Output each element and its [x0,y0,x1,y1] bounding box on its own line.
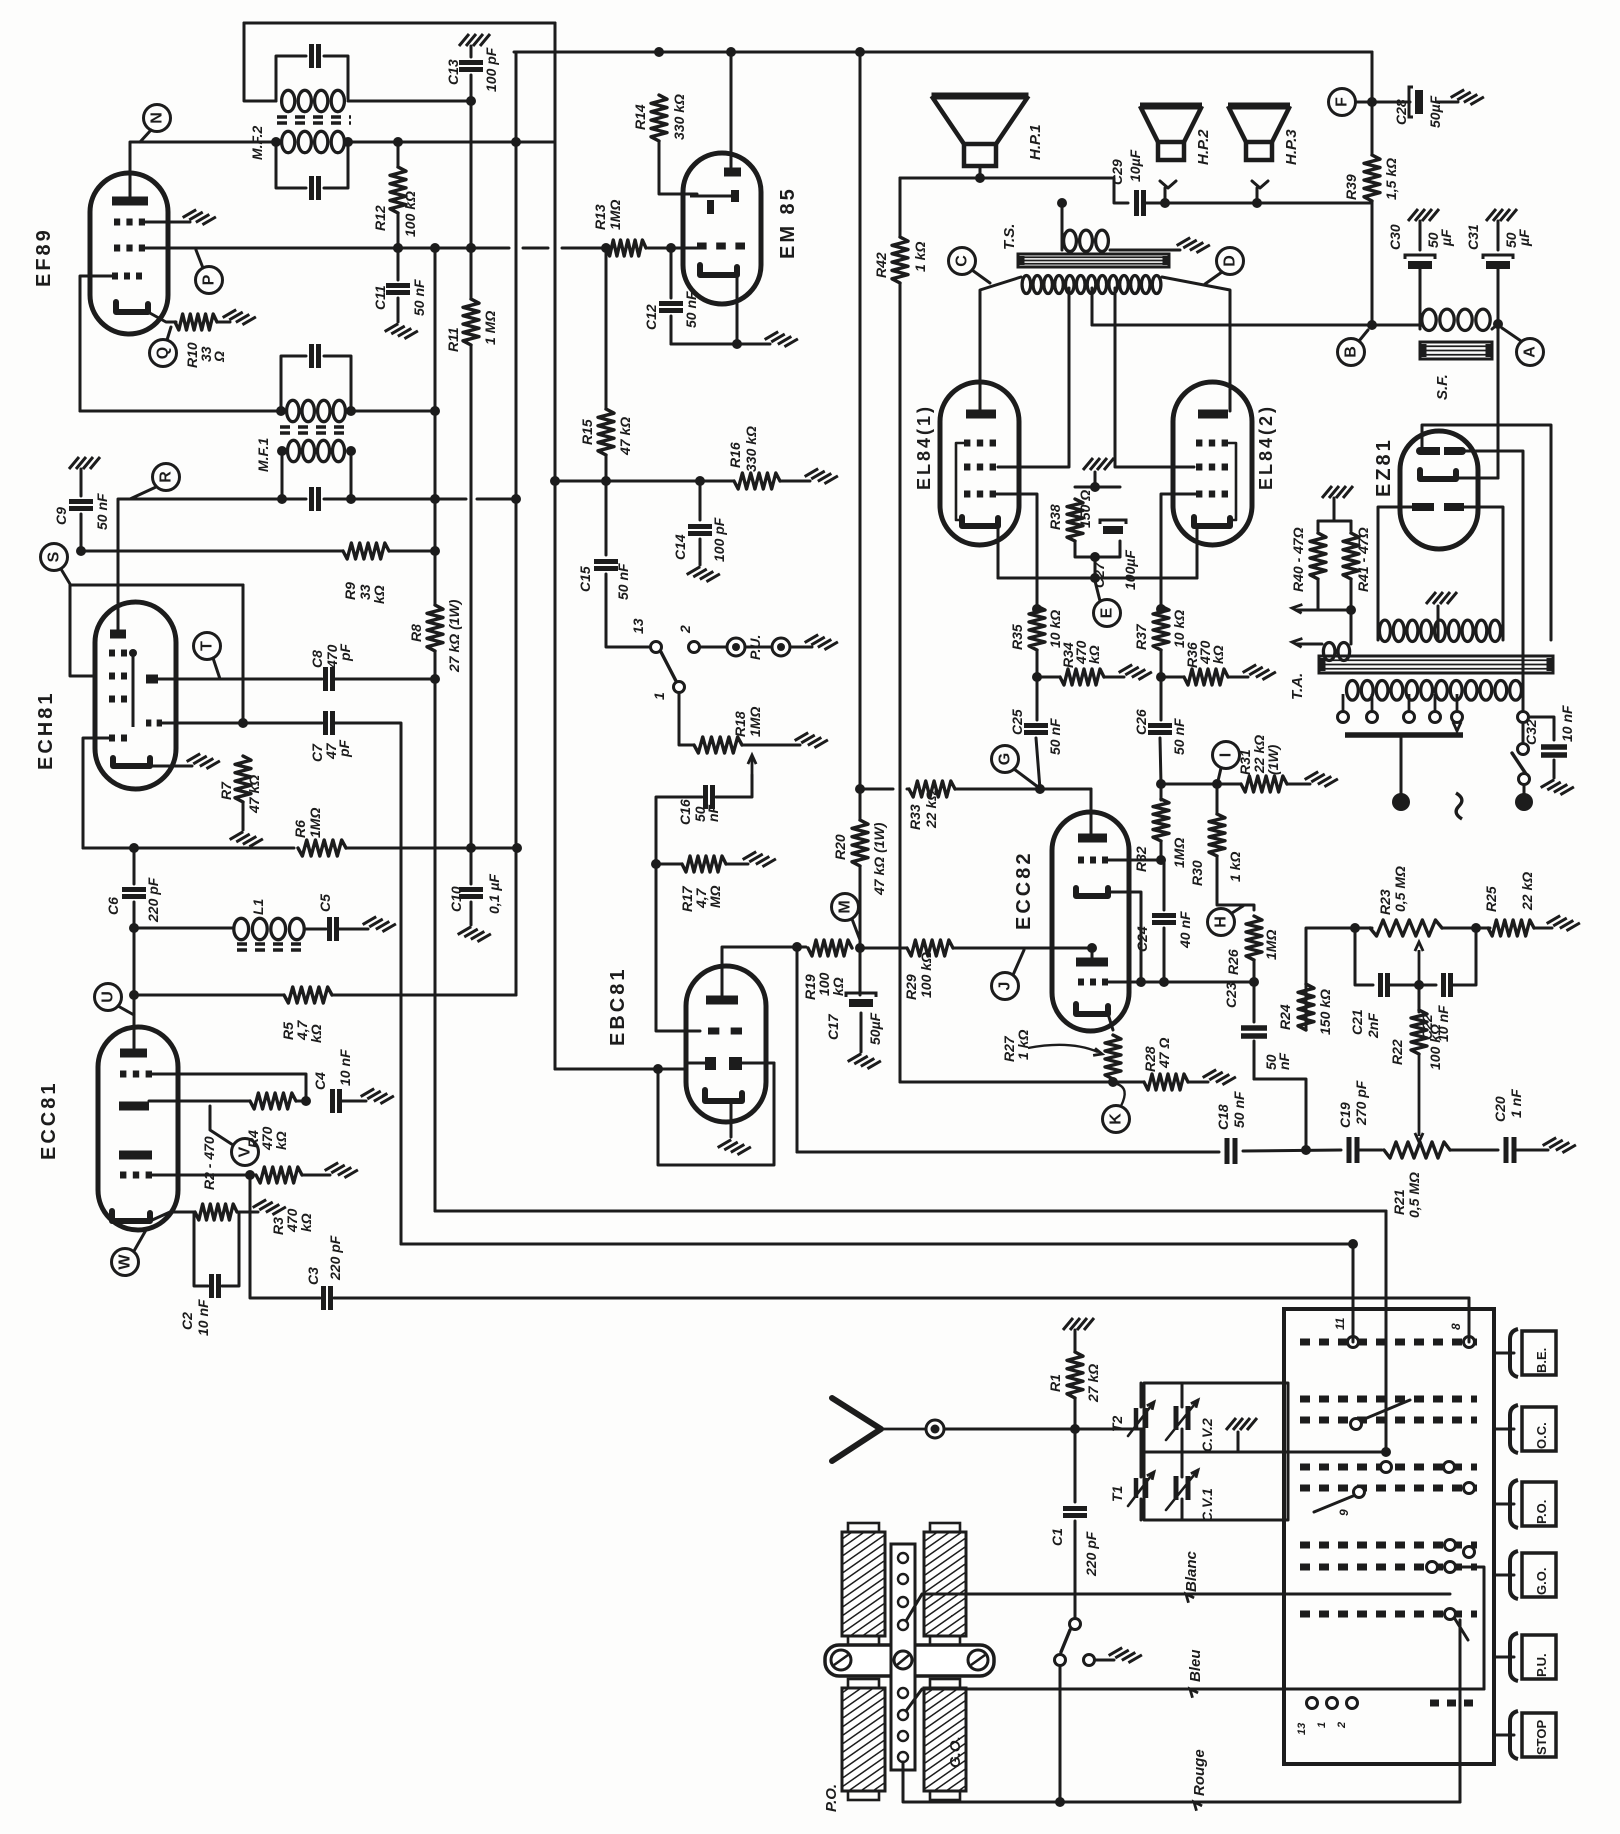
transformer M.F.1 lower tank [282,451,306,499]
wire ECC82 plate1 stem [1091,948,1094,959]
svg-text:O.C.: O.C. [1534,1422,1549,1449]
electrode ECH81 row2 [109,673,115,680]
capacitor C32 [1541,744,1567,750]
junction HP1 [975,173,985,183]
tube ECH81 envelope [95,602,176,789]
wire diode1 lead [686,1062,705,1065]
wire ECH81 cathode lead [150,765,192,768]
svg-text:C16: C16 [677,799,693,825]
resistor R26 [1246,916,1262,960]
wire R37 bottom [1160,650,1163,677]
wire C4 to ground [341,1100,366,1103]
ground C30 [1408,209,1439,221]
junction R37 top [1156,604,1166,614]
contact row G2 [1445,1562,1456,1573]
resistor R34 [1060,669,1104,685]
svg-text:C6: C6 [105,897,121,915]
resistor R22 [1411,1010,1427,1054]
junction R6/bus515 [512,843,522,853]
contact row C lever [1351,1419,1362,1430]
resistor R10 [175,314,217,330]
terminal strip 2 [898,1574,908,1584]
electrode EZ81 heater bars [1420,447,1440,455]
wire R23 right [1442,927,1476,930]
svg-text:H.P.3: H.P.3 [1283,129,1300,165]
electrode EF89 grid row1 [114,219,120,226]
core S.F. [1420,342,1492,359]
wire C20 to ground [1516,1149,1548,1152]
electrode ECH81 hexode anode [146,675,158,684]
wire bus555 to EBC81 diode [555,1068,686,1071]
contact ant switch a [1070,1619,1081,1630]
contact row F2 [1464,1547,1475,1558]
junction MF2 lower left [271,137,281,147]
node V [232,1139,259,1166]
electrode EM85 grid row [697,243,707,250]
wire R6 right [346,847,517,850]
svg-text:EM 85: EM 85 [777,186,799,259]
wire G rail2 [955,788,1091,791]
tube EBC81 envelope [686,966,766,1122]
ground EM85 [765,328,798,350]
node I [1213,742,1240,769]
terminal TA 3 [1404,712,1415,723]
wire frame right [242,585,245,723]
wire C17 stem [859,948,862,995]
node P [196,267,223,294]
svg-text:K: K [1108,1113,1125,1125]
node K [1103,1106,1130,1133]
electrode ECH81 grid cap bar [110,630,126,639]
svg-text:C: C [954,255,971,267]
junction grid rail R12 [393,243,403,253]
plug H.P.2 [1164,188,1167,203]
resistor R8 [427,605,443,651]
ground R31 [1305,768,1338,790]
mains AC symbol [1456,793,1462,819]
junction MF1 bot left [277,494,287,504]
wire C1 top [1074,1429,1077,1502]
terminal strip 8 [898,1752,908,1762]
svg-text:1MΩ: 1MΩ [307,808,323,838]
svg-text:0,5 MΩ: 0,5 MΩ [1392,866,1408,912]
switch row B [1300,1396,1477,1403]
wire C28 lead1 [1372,101,1410,104]
svg-text:R18: R18 [732,711,748,737]
svg-text:C10: C10 [448,886,464,912]
junction cathode2-grid1 [1136,977,1146,987]
junction grid1 wire [1249,977,1259,987]
switch row F [1300,1542,1477,1549]
wire A bus down [1497,324,1500,478]
ground R3 [325,1159,358,1181]
svg-text:270 pF: 270 pF [1353,1080,1369,1126]
svg-text:50 nF: 50 nF [683,291,699,328]
contact mains switch b [1519,774,1530,785]
junction heater winding [1346,605,1356,615]
switch row C [1300,1417,1477,1424]
junction R35 top [1032,604,1042,614]
ground above C9 [69,457,100,469]
switch row G [1300,1564,1477,1571]
wire C30 bottom [1419,269,1422,329]
wire bus900 upper [899,178,902,237]
node Q [150,340,177,367]
svg-text:27 kΩ (1W): 27 kΩ (1W) [446,599,462,673]
node F [1329,89,1356,116]
wire T tag [213,658,220,679]
tube EL84(2) envelope [1173,382,1252,545]
wire R4 right lead [296,1100,306,1103]
ground tuning block [1226,1418,1257,1430]
wire T1 stubs [1140,1452,1143,1477]
svg-text:R20: R20 [832,834,848,860]
wire CV ground stub [1237,1432,1240,1452]
svg-text:1: 1 [651,692,667,700]
wire EF89 screen rail [145,247,509,250]
wire C25 bottom [1036,738,1040,789]
ground C10 [458,923,491,945]
wire EM85 cath rail [671,343,770,346]
node H [1208,909,1235,936]
terminal strip 3 [898,1597,908,1607]
junction cath/E [1090,573,1100,583]
junction MF1 lower left [277,446,287,456]
svg-text:50 nF: 50 nF [411,279,427,316]
svg-text:E: E [1099,607,1116,618]
wire C tag [972,270,990,283]
svg-text:Rouge: Rouge [1191,1749,1208,1796]
capacitor C2 [209,1274,214,1298]
electrode ECC82 grid1 row [1078,979,1084,986]
transformer M.F.2 upper tank [276,56,306,101]
capacitor C29 [1134,190,1139,216]
svg-text:EL84(1): EL84(1) [914,404,934,490]
svg-text:220 pF: 220 pF [145,877,161,923]
wire MF1 bottom right b [477,498,516,501]
contact row D2 [1444,1462,1455,1473]
wire R23 left lead [1355,927,1372,930]
transformer M.F.2 lower tank [276,142,306,188]
wire L1 drop [1385,1211,1388,1452]
electrode EBC81 grid row [708,1028,719,1035]
wire rouge tap [903,1762,1460,1802]
svg-text:1 kΩ: 1 kΩ [912,242,928,272]
svg-text:kΩ: kΩ [830,977,846,996]
wire ECC82 cathode1 lead [1108,1014,1113,1030]
wire ECH81 gridcap lead [117,606,120,631]
wire R34 to ground [1104,676,1124,679]
capacitor C5 [327,917,332,941]
wire TS tert right [1110,249,1180,252]
ground C11 [385,320,418,342]
switch lever row H [1455,1619,1468,1640]
junction U wire [129,990,139,1000]
ground C32 [1541,776,1574,798]
terminal strip 5 [898,1688,908,1698]
wire EBC81 plate up [722,947,797,968]
svg-text:S.F.: S.F. [1434,374,1451,400]
resistor R24 [1298,984,1314,1030]
svg-text:R37: R37 [1133,623,1149,650]
resistor R1 [1067,1352,1083,1398]
wire contact2 to PU [700,646,726,649]
wire C23 stem [1253,982,1256,1022]
terminal strip screw [894,1651,912,1669]
coil P.O. upper [842,1532,885,1636]
wire tone rail4 [1450,1149,1498,1152]
svg-text:2: 2 [1336,1722,1348,1729]
junction C6 top [129,843,139,853]
svg-text:R8: R8 [408,624,424,642]
pot R18 wiper [751,757,754,775]
junction L1 wire [129,923,139,933]
ground cathode network [1083,458,1114,470]
wire antenna into frame [1075,1428,1144,1431]
wire main bus x860 upper [859,52,862,820]
wire wiper to C16 [716,775,752,797]
wire EL84-2 cathode lead [1196,526,1199,578]
inductor T.A. HV secondary [1379,620,1390,641]
svg-text:10µF: 10µF [1127,149,1143,182]
core T.A. [1319,656,1553,673]
wire R16 to ground [780,480,810,483]
svg-text:T.A.: T.A. [1289,673,1306,700]
wire EZ81 plate1 lead [1378,507,1412,640]
capacitor C19 [1347,1137,1352,1163]
svg-text:R13: R13 [592,204,608,230]
svg-text:50 nF: 50 nF [615,563,631,600]
wire R28 to ground [1188,1081,1208,1084]
junction rouge wire [1055,1797,1065,1807]
svg-text:C.V.1: C.V.1 [1199,1488,1215,1522]
node T [194,633,221,660]
svg-text:W: W [117,1254,134,1270]
wire rouge riser [1459,1620,1462,1802]
electrode ECH81 row1 [109,650,115,657]
svg-text:M: M [837,900,854,913]
svg-text:F: F [1334,97,1351,107]
svg-text:220 pF: 220 pF [327,1235,343,1281]
junction MF1 upper right [346,406,356,416]
wire R15 column [605,248,608,409]
capacitor C11 [386,283,410,288]
wire M tag [852,919,860,940]
wire ECC82 grid2 out [1108,859,1161,862]
wire R3 to ground [302,1174,330,1177]
resistor R6 [298,840,346,856]
wire R1 top [1074,1330,1077,1352]
svg-text:10 nF: 10 nF [337,1049,353,1086]
contact 9 [1354,1487,1365,1498]
ground R28 [1203,1066,1236,1088]
electrode EF89 grid3 row [112,273,118,280]
resistor R23 [1370,920,1442,936]
wire R12 bottom [397,213,400,248]
svg-text:R38: R38 [1047,504,1063,530]
contact 13 [651,642,662,653]
junction I/R30 [1212,779,1222,789]
junction grid rail bus471 [466,243,476,253]
wire EF89 screen rail b [523,247,548,250]
wire C30 top [1419,221,1422,250]
electrode EL84-2 grid row [1196,491,1202,498]
wire frame left [70,585,96,676]
wire D tag [1205,272,1222,284]
svg-text:R16: R16 [727,442,743,468]
wire CV2 stubs [1181,1383,1184,1407]
svg-text:C21: C21 [1349,1009,1365,1035]
junction C14 top [695,476,705,486]
svg-text:C23: C23 [1223,982,1239,1008]
ground R2 [253,1196,286,1218]
wire R17 to ground [726,863,748,866]
wire HP1 lead [979,166,982,178]
mains pin 2 [1515,793,1533,811]
node A [1517,339,1544,366]
wire R24 up corner [1306,928,1355,984]
svg-text:1MΩ: 1MΩ [1263,930,1279,960]
ground ECH81 cathode [187,750,220,772]
contact row F1 [1445,1540,1456,1551]
wire blanc tap [906,1594,1450,1621]
svg-text:1MΩ: 1MΩ [1171,838,1187,868]
svg-text:1MΩ: 1MΩ [607,200,623,230]
wire R10 to ground [217,321,230,324]
wire C7 rail [243,722,322,725]
svg-text:G.O.: G.O. [1534,1568,1549,1595]
wire V tag [210,1106,233,1145]
resistor R21 [1384,1142,1450,1158]
wire E tag [1095,581,1100,601]
svg-text:C5: C5 [317,894,333,912]
junction L2/x1353 [1348,1239,1358,1249]
wire tuning mid rail [1144,1451,1288,1454]
tube ECC82 envelope [1052,812,1129,1031]
svg-text:H: H [1213,916,1230,928]
wire R38 box bottom [1075,541,1120,557]
capacitor C25 [1024,723,1048,728]
svg-text:R6: R6 [292,820,308,838]
label R27 pointer [1028,1045,1098,1052]
speaker H.P.2 [1140,103,1202,110]
svg-text:R: R [158,471,175,483]
wire EL84-2 plate stem [1229,385,1232,411]
wire ECH81 row5 left [83,738,109,848]
svg-text:kΩ: kΩ [371,585,387,604]
wire R14 bottom [659,141,697,194]
wire ECC82 grid1 out [1108,981,1254,984]
svg-text:R14: R14 [632,104,648,130]
node C [949,248,976,275]
junction C13/MF2 [466,96,476,106]
svg-text:22 kΩ: 22 kΩ [1519,872,1535,911]
junction MF1 upper left [276,406,286,416]
tube EL84(1) envelope [940,382,1019,545]
wire R40 top lead [1317,521,1320,531]
svg-text:2nF: 2nF [1365,1013,1381,1039]
node G [992,746,1019,773]
switch row I [1430,1700,1475,1707]
wire EL84-1 plate stem [979,385,982,411]
wire long L1 [435,1210,1386,1213]
wire ECH81 grid frame [70,584,243,587]
ground C14 [687,563,720,585]
terminal strip 1 [898,1553,908,1563]
svg-text:C25: C25 [1009,709,1025,735]
wire heater arrow2 [1296,643,1322,646]
electrode ECH81 cathode [113,758,150,766]
wire MF2 left feed [244,23,276,101]
svg-text:1MΩ: 1MΩ [747,707,763,737]
svg-text:A: A [1522,346,1539,358]
contact 1 [674,682,685,693]
capacitor C30 [1405,255,1435,259]
svg-text:150 Ω: 150 Ω [1077,490,1093,528]
svg-text:C29: C29 [1109,159,1125,185]
wire R25 to ground [1534,927,1552,930]
wire R12 top [397,142,400,167]
svg-text:C11: C11 [372,285,388,310]
capacitor C13 [459,60,483,65]
svg-text:C20: C20 [1492,1096,1508,1122]
node M [832,894,859,921]
wire MF2 out left [130,142,276,197]
speaker H.P.3 [1228,103,1290,110]
electrode ECH81 row4 triode [146,720,151,727]
resistor R35 [1029,606,1045,650]
wire ECC81 cathode lead [150,1212,194,1221]
electrode EF89 control grid cap bar [112,197,148,206]
svg-text:1 kΩ: 1 kΩ [1015,1030,1031,1060]
wire R41 top lead [1350,521,1353,531]
wire R7 bottom [242,802,245,830]
switch mains lever [1512,753,1526,774]
wire T2 stubs [1140,1383,1143,1407]
pot R23 wiper [1418,950,1421,985]
svg-text:T: T [199,641,216,651]
svg-text:P.O.: P.O. [1534,1500,1549,1524]
wire U tag [118,1006,134,1015]
junction K node [1108,1077,1118,1087]
wire R30 bottom [1217,856,1254,910]
capacitor C16 [703,785,708,809]
wire C6 stem [133,848,136,884]
svg-text:ECH81: ECH81 [35,691,57,770]
tube EZ81 envelope [1400,431,1478,549]
junction R19/EBC81 [792,942,802,952]
electrode EBC81 diode plates [705,1057,716,1070]
junction diode box [653,1064,663,1074]
speaker H.P.1 [932,93,1029,100]
wire speaker rail [900,178,1128,203]
junction R15/R16 [601,476,611,486]
capacitor C28 [1409,87,1413,117]
wire top bus y52 [514,51,1372,54]
wire C7 right riser [334,723,401,1244]
resistor R17 [682,856,726,872]
svg-text:R39: R39 [1343,174,1359,200]
wire EF89 cathode lead [148,312,176,322]
capacitor C21 [1378,973,1383,997]
wire C31 top [1497,221,1500,250]
junction bus437/rail [430,243,440,253]
wire EF89 g3 left [80,276,112,411]
wire G tag [1014,769,1038,787]
svg-text:Blanc: Blanc [1183,1550,1200,1592]
svg-text:B: B [1343,346,1360,358]
svg-text:M.F.1: M.F.1 [255,438,271,472]
